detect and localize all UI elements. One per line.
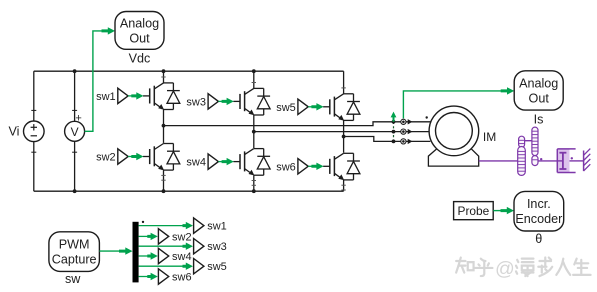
- svg-text:Out: Out: [529, 91, 550, 105]
- svg-text:Encoder: Encoder: [515, 212, 562, 226]
- shaft: motor to gear: [479, 160, 518, 162]
- goto-tag triangle sw5: [194, 259, 204, 274]
- goto-tag triangle sw2: [158, 229, 168, 244]
- gear left large: [518, 147, 526, 176]
- transistor sw5 IGBT with diode (upper leg3): [330, 94, 360, 121]
- arrow gate sw3: [222, 98, 234, 105]
- svg-text:+: +: [75, 113, 81, 125]
- wire: demux out sw4 (green): [139, 255, 151, 257]
- wire: phase C: [344, 137, 431, 142]
- junction: phase C tap: [342, 135, 346, 139]
- wire: ammeter signal dashed link: [393, 122, 395, 142]
- wire: PWM Capture to demux (green): [99, 250, 126, 252]
- goto-tag triangle sw6: [158, 269, 168, 284]
- transistor sw1 IGBT with diode (upper leg1): [150, 83, 180, 110]
- svg-text:Analog: Analog: [519, 76, 558, 90]
- terminal tick leg1 bottom b: [161, 179, 165, 181]
- arrow into Analog Out Vdc: [102, 27, 116, 34]
- transistor sw3 IGBT with diode (upper leg2): [240, 88, 270, 115]
- gate wire sw1: [143, 95, 150, 97]
- wire: DC bus positive top rail: [34, 70, 344, 72]
- from-tag triangle sw4: [208, 154, 218, 169]
- wire: demux out sw3 (green): [139, 245, 187, 247]
- svg-text:Analog: Analog: [120, 16, 159, 30]
- svg-text:sw6: sw6: [172, 272, 192, 284]
- arrow sw3: [183, 243, 194, 250]
- wire: voltmeter branch vertical: [74, 71, 76, 191]
- wire: leg1 mid vertical: [163, 110, 165, 143]
- arrow gate sw5: [311, 103, 323, 110]
- arrow: current signal up: [391, 112, 397, 122]
- block Analog Out (Is): [514, 71, 563, 110]
- arrow sw5: [183, 263, 194, 270]
- svg-text:Capture: Capture: [52, 253, 97, 267]
- svg-text:θ: θ: [535, 232, 542, 246]
- wire triangle-to-arrow sw1: [128, 95, 132, 97]
- from-tag triangle sw2: [118, 149, 128, 164]
- svg-text:sw5: sw5: [207, 261, 227, 273]
- wire: phase B: [254, 131, 430, 133]
- junction: voltmeter bottom rail: [73, 189, 77, 193]
- svg-text:Probe: Probe: [458, 204, 490, 218]
- junction: sensor tap phase A: [392, 120, 396, 124]
- from-tag triangle sw6: [298, 159, 308, 174]
- junction: leg2 bottom rail: [252, 189, 256, 193]
- goto-tag triangle sw3: [194, 239, 204, 254]
- junction: leg1 top rail: [162, 69, 166, 73]
- wire: DC bus negative bottom rail: [34, 190, 344, 192]
- junction: voltmeter top rail: [73, 69, 77, 73]
- wire triangle-to-arrow sw3: [218, 100, 222, 102]
- svg-text:sw: sw: [65, 272, 81, 286]
- arrow into Incr. Encoder: [501, 207, 515, 214]
- wire: leg3 bottom stub: [343, 180, 345, 191]
- ammeter phase C: [401, 139, 406, 144]
- svg-text:sw1: sw1: [96, 91, 116, 103]
- damper piston: [562, 153, 564, 169]
- motor base: [428, 148, 478, 166]
- wire: left vertical wire of DC bus: [33, 71, 35, 191]
- voltmeter V: [65, 121, 85, 141]
- machine IM outer circle: [429, 106, 479, 156]
- wire: phase A: [164, 122, 431, 126]
- junction: phase A tap: [162, 124, 166, 128]
- svg-text:@: @: [495, 258, 515, 280]
- from-tag triangle sw3: [208, 94, 218, 109]
- junction: phase B tap: [252, 130, 256, 134]
- gear right large: [532, 127, 538, 156]
- svg-text:Vdc: Vdc: [129, 51, 151, 65]
- block Incr. Encoder: [514, 191, 564, 231]
- wire triangle-to-arrow sw2: [128, 156, 132, 158]
- terminal tick leg3 top: [341, 87, 345, 89]
- arrow into Analog Out Is: [501, 87, 515, 94]
- arrow gate sw1: [131, 92, 143, 99]
- shaft: gear to damper: [538, 160, 557, 162]
- terminal tick V bottom: [72, 151, 77, 153]
- terminal tick leg2 bottom a: [252, 180, 256, 182]
- terminal tick leg2 bottom b: [252, 184, 256, 186]
- block PWM Capture: [49, 232, 100, 272]
- svg-text:Incr.: Incr.: [527, 197, 551, 211]
- terminal tick leg1 top: [161, 76, 165, 78]
- svg-text:PWM: PWM: [59, 237, 90, 251]
- machine IM inner circle: [436, 112, 473, 149]
- wire: demux out sw6 (green): [139, 276, 151, 278]
- arrow sw6: [147, 273, 158, 280]
- gate wire sw3: [233, 100, 240, 102]
- wire triangle-to-arrow sw4: [218, 161, 222, 163]
- svg-text:sw1: sw1: [207, 221, 227, 233]
- wire: leg2 top stub: [253, 71, 255, 88]
- from-tag triangle sw5: [298, 99, 308, 114]
- wire: probe to encoder (green): [493, 210, 508, 212]
- wire: leg2 bottom stub: [253, 175, 255, 191]
- gear right small: [532, 156, 538, 166]
- svg-text:V: V: [71, 125, 79, 139]
- wire: demux out sw1 (green): [139, 225, 187, 227]
- arrow gate sw2: [131, 153, 143, 160]
- arrow gate sw6: [311, 163, 323, 170]
- terminal marker dot demux: [142, 221, 144, 223]
- wire: leg3 mid vertical: [343, 120, 345, 152]
- svg-text:sw4: sw4: [186, 157, 206, 169]
- terminal tick leg2 top: [252, 82, 256, 84]
- gate wire sw4: [233, 161, 240, 163]
- wire: leg1 bottom stub: [163, 170, 165, 191]
- svg-text:sw3: sw3: [186, 97, 206, 109]
- gate wire sw2: [143, 156, 150, 158]
- terminal tick leg3 bottom a: [341, 184, 345, 186]
- mechanical ground wall: [583, 151, 585, 172]
- wire: demux out sw2 (green): [139, 235, 151, 237]
- wire: demux out sw5 (green): [139, 265, 187, 267]
- transistor sw4 IGBT with diode (lower leg2): [240, 149, 270, 176]
- wire: leg2 mid vertical: [253, 115, 255, 148]
- arrow into demux: [119, 247, 133, 254]
- terminal tick leg3 bottom b: [341, 189, 345, 191]
- svg-text:IM: IM: [483, 130, 496, 144]
- svg-text:sw3: sw3: [207, 241, 227, 253]
- wire triangle-to-arrow sw6: [308, 165, 312, 167]
- goto-tag triangle sw1: [194, 218, 204, 233]
- voltage source Vi: [24, 121, 45, 142]
- arrow sw4: [147, 252, 158, 259]
- block Analog Out (Vdc): [115, 12, 164, 50]
- wire: leg1 top stub: [163, 71, 165, 83]
- arrow sw2: [147, 233, 158, 240]
- junction: sensor tap phase C: [392, 140, 396, 144]
- svg-text:sw4: sw4: [172, 251, 192, 263]
- ammeter phase A: [401, 119, 406, 124]
- shaft: gear interconnect: [525, 140, 532, 142]
- gate wire sw5: [323, 106, 330, 108]
- terminal marker dot IM: [426, 116, 428, 118]
- goto-tag triangle sw4: [158, 248, 168, 263]
- junction: sensor tap phase B: [392, 130, 396, 134]
- junction: leg1 bottom rail: [162, 189, 166, 193]
- svg-text:Is: Is: [534, 113, 544, 127]
- terminal tick Vi top: [31, 109, 36, 111]
- svg-text:sw5: sw5: [276, 102, 296, 114]
- svg-text:Out: Out: [129, 31, 150, 45]
- svg-text:sw6: sw6: [276, 161, 296, 173]
- wire: voltmeter signal to Analog Out Vdc (green): [85, 31, 109, 131]
- transistor sw2 IGBT with diode (lower leg1): [150, 144, 180, 171]
- wire triangle-to-arrow sw5: [308, 106, 312, 108]
- terminal tick Vi bottom: [31, 151, 36, 153]
- svg-text:sw2: sw2: [96, 152, 116, 164]
- shaft: damper to wall: [570, 160, 584, 162]
- svg-text:Vi: Vi: [9, 125, 20, 139]
- terminal tick V top: [72, 109, 77, 111]
- terminal marker dot damper: [571, 157, 573, 159]
- junction: leg2 top rail: [252, 69, 256, 73]
- gate wire sw6: [323, 165, 330, 167]
- ammeter phase B: [401, 129, 406, 134]
- svg-text:sw2: sw2: [172, 231, 192, 243]
- from-tag triangle sw1: [118, 88, 128, 103]
- demux bar: [133, 222, 139, 283]
- gear left small: [519, 136, 525, 147]
- arrow sw1: [183, 222, 194, 229]
- terminal marker dot gear: [540, 158, 542, 160]
- transistor sw6 IGBT with diode (lower leg3): [330, 153, 360, 180]
- arrow gate sw4: [222, 158, 234, 165]
- terminal tick leg1 bottom a: [161, 174, 165, 176]
- watermark: [456, 258, 473, 273]
- wire: ammeter signal to Analog Out Is (green): [403, 91, 508, 119]
- block Probe: [454, 202, 494, 220]
- wire: leg3 top stub: [343, 71, 345, 94]
- damper cylinder: [557, 149, 569, 173]
